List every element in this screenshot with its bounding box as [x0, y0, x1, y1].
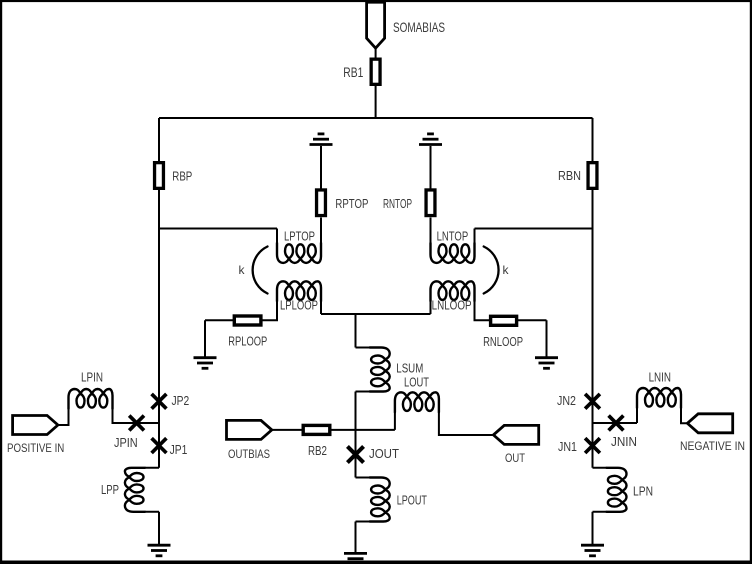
svg-text:LNIN: LNIN [649, 370, 671, 384]
svg-text:RPLOOP: RPLOOP [228, 335, 267, 349]
svg-text:POSITIVE IN: POSITIVE IN [7, 441, 64, 455]
svg-text:JNIN: JNIN [611, 434, 637, 449]
svg-text:OUTBIAS: OUTBIAS [228, 447, 270, 461]
svg-text:LPN: LPN [633, 484, 653, 498]
svg-text:LPLOOP: LPLOOP [280, 298, 318, 312]
svg-text:RNTOP: RNTOP [383, 197, 412, 211]
svg-text:SOMABIAS: SOMABIAS [393, 19, 445, 35]
svg-text:LNTOP: LNTOP [437, 229, 469, 243]
svg-text:JP2: JP2 [172, 394, 190, 408]
svg-text:LNLOOP: LNLOOP [432, 298, 472, 312]
svg-text:LPIN: LPIN [81, 371, 103, 385]
svg-text:RPTOP: RPTOP [335, 197, 368, 211]
svg-text:OUT: OUT [505, 451, 526, 465]
svg-text:RBN: RBN [558, 169, 581, 183]
svg-text:JN2: JN2 [557, 394, 576, 408]
svg-text:LPOUT: LPOUT [397, 494, 428, 508]
svg-text:JOUT: JOUT [369, 446, 399, 461]
svg-text:k: k [503, 263, 510, 277]
svg-text:LSUM: LSUM [396, 361, 423, 375]
svg-text:RB2: RB2 [308, 444, 327, 458]
svg-text:LPP: LPP [101, 483, 119, 497]
svg-text:JN1: JN1 [558, 440, 577, 454]
svg-text:RBP: RBP [172, 169, 192, 183]
svg-text:LPTOP: LPTOP [284, 229, 315, 243]
svg-text:k: k [239, 263, 246, 277]
svg-text:RNLOOP: RNLOOP [483, 335, 523, 349]
svg-text:JP1: JP1 [170, 443, 188, 457]
svg-text:RB1: RB1 [343, 65, 363, 80]
svg-text:JPIN: JPIN [114, 435, 138, 450]
svg-text:NEGATIVE IN: NEGATIVE IN [680, 439, 745, 453]
svg-text:LOUT: LOUT [404, 375, 429, 389]
